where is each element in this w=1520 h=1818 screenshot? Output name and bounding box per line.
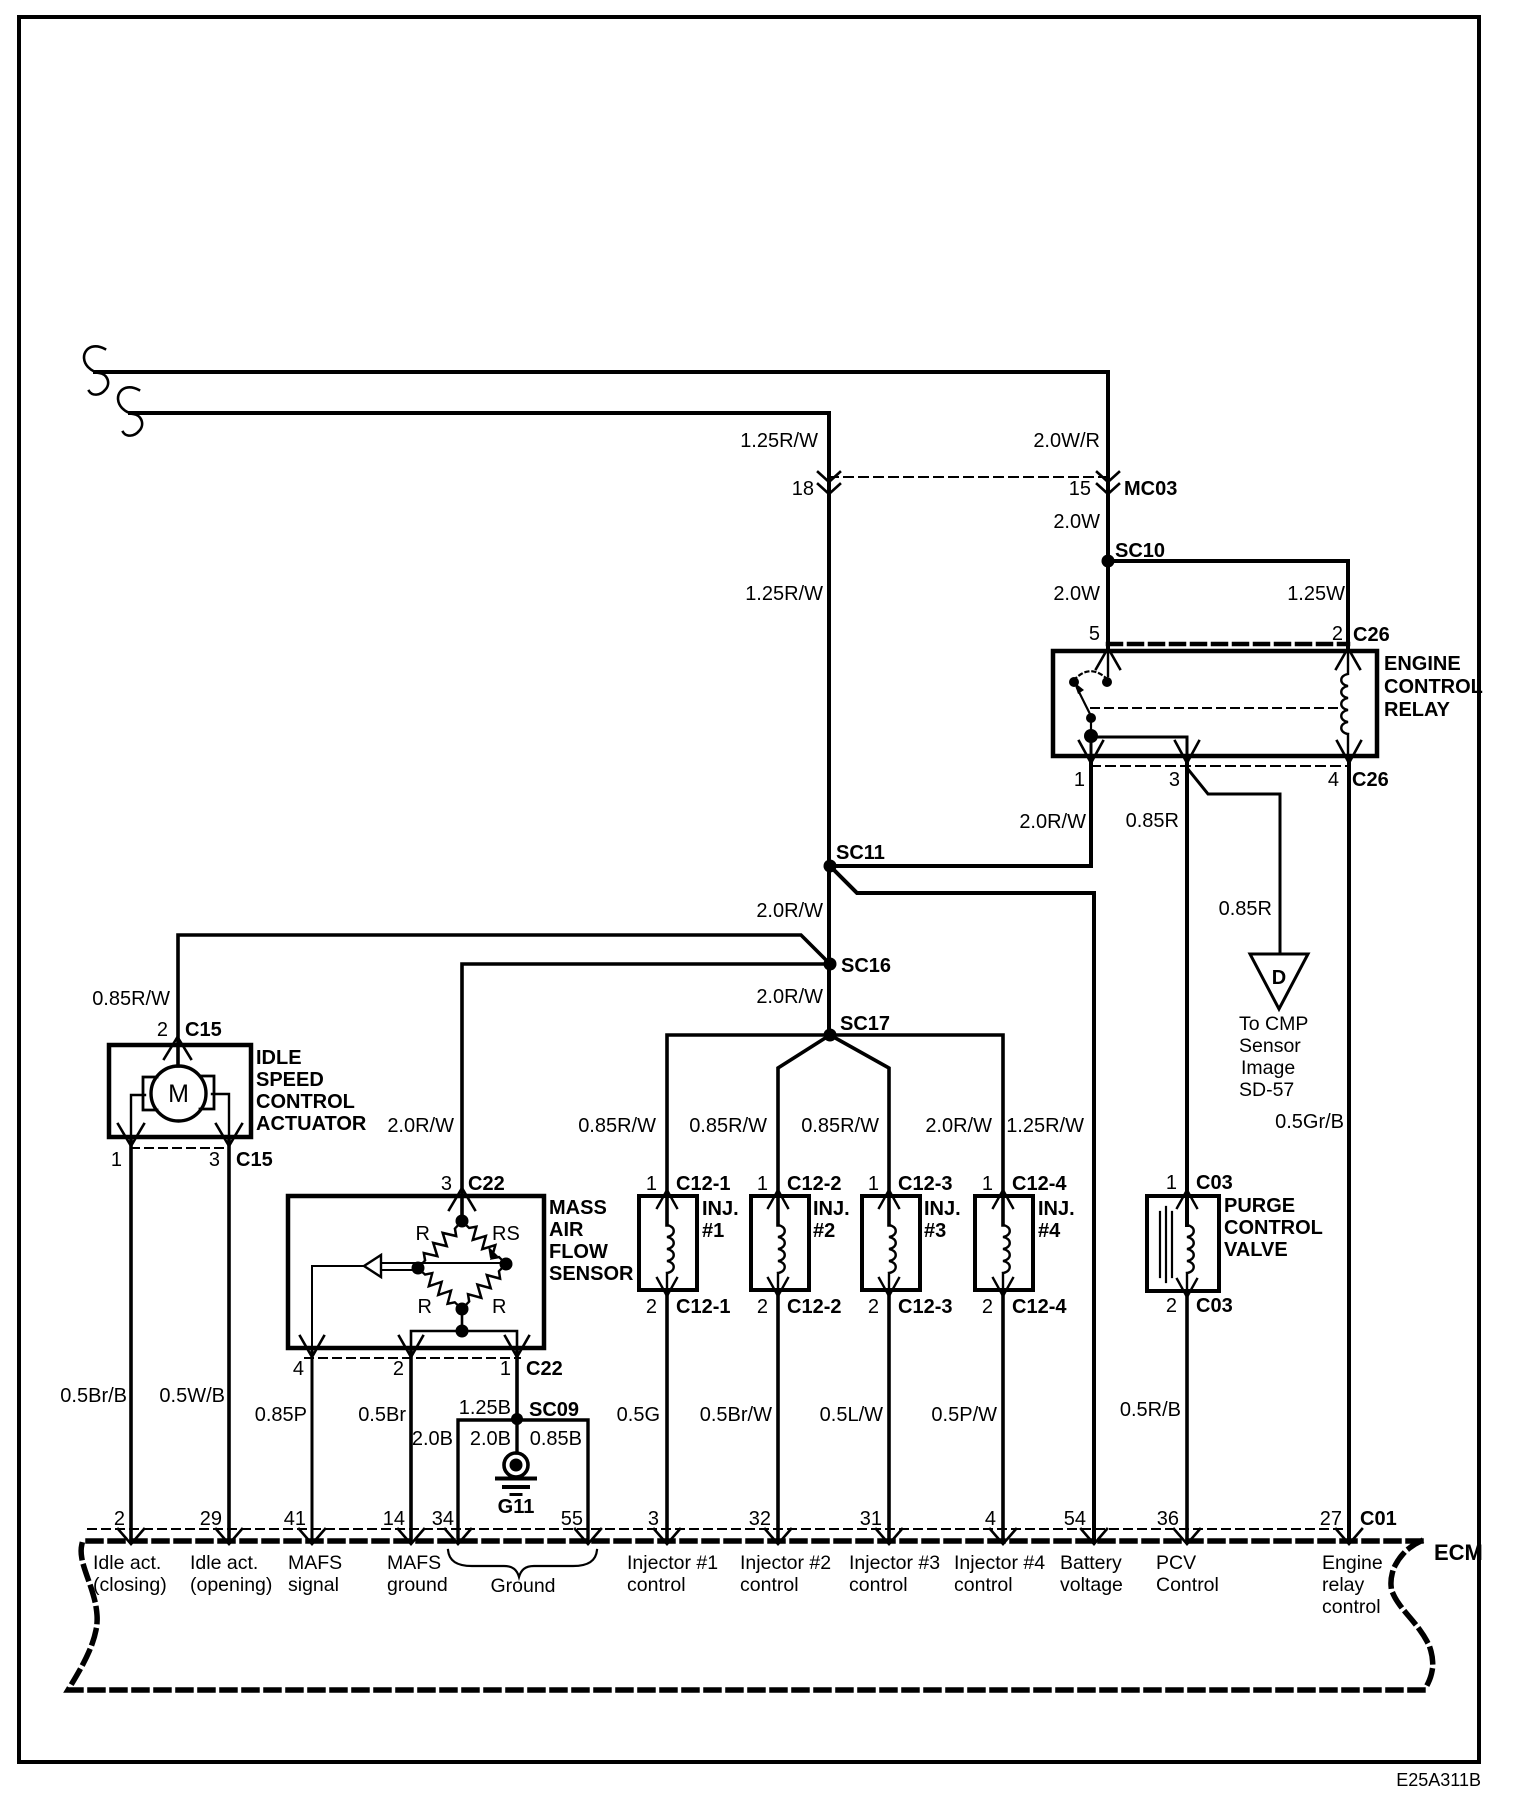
wire ISCA pin3 to ECM pin 29 <box>227 1137 231 1541</box>
svg-text:2: 2 <box>114 1508 125 1530</box>
svg-text:D: D <box>1272 967 1286 989</box>
svg-text:CONTROL: CONTROL <box>1224 1217 1323 1239</box>
svg-text:32: 32 <box>749 1508 771 1530</box>
bridge resistor R top-left <box>414 1217 467 1272</box>
relay switch dot C <box>1086 713 1096 723</box>
svg-text:54: 54 <box>1064 1508 1086 1530</box>
wire SC17 to injector 1 <box>667 1035 830 1225</box>
wires injectors to ECM <box>665 1290 669 1541</box>
svg-text:INJ.: INJ. <box>702 1198 739 1220</box>
relay box <box>1053 651 1377 756</box>
injector 1 box <box>639 1196 697 1290</box>
svg-text:INJ.: INJ. <box>813 1198 850 1220</box>
bridge output lines to arrow <box>381 1263 506 1270</box>
connector C15 dashed line <box>131 1147 229 1149</box>
svg-text:C26: C26 <box>1352 769 1389 791</box>
connector MC03 dashed line <box>829 476 1108 478</box>
injector 3 pin chevrons <box>879 1190 899 1296</box>
svg-text:0.85R/W: 0.85R/W <box>801 1115 879 1137</box>
svg-text:To CMP: To CMP <box>1239 1013 1308 1035</box>
svg-text:signal: signal <box>288 1574 339 1596</box>
bridge node bottom <box>456 1303 469 1316</box>
svg-text:1.25R/W: 1.25R/W <box>1006 1115 1084 1137</box>
svg-text:C22: C22 <box>468 1173 505 1195</box>
relay pin 3 chevron <box>1175 741 1199 763</box>
svg-text:3: 3 <box>648 1508 659 1530</box>
svg-text:CONTROL: CONTROL <box>1384 676 1483 698</box>
svg-text:3: 3 <box>209 1149 220 1171</box>
wire PCV relay pin3 to purge valve <box>1185 756 1189 1225</box>
svg-text:15: 15 <box>1069 478 1091 500</box>
wire engine relay control relay pin4 to ECM pin 27 <box>1347 756 1351 1541</box>
svg-text:31: 31 <box>860 1508 882 1530</box>
svg-text:ECM: ECM <box>1434 1540 1483 1565</box>
svg-text:C01: C01 <box>1360 1508 1397 1530</box>
svg-text:0.5Gr/B: 0.5Gr/B <box>1275 1111 1344 1133</box>
wire SC16 to MAFS pin 3 <box>462 964 830 1214</box>
bridge output arrow <box>364 1255 381 1277</box>
svg-text:C12-3: C12-3 <box>898 1296 952 1318</box>
ISCA pin 1 chevron <box>118 1124 144 1146</box>
relay wire dot D to pins 1 and 3 <box>1091 736 1187 756</box>
wire battery voltage SC11 to ECM pin 54 <box>830 866 1094 1541</box>
svg-text:C03: C03 <box>1196 1295 1233 1317</box>
injector 4 box <box>975 1196 1033 1290</box>
svg-text:0.5W/B: 0.5W/B <box>159 1385 225 1407</box>
svg-text:PCV: PCV <box>1156 1552 1196 1574</box>
svg-text:3: 3 <box>1169 769 1180 791</box>
triangle D to CMP sensor <box>1250 954 1308 1009</box>
svg-text:control: control <box>954 1574 1013 1596</box>
wire SC17 to injector 3 <box>830 1035 889 1225</box>
svg-text:control: control <box>849 1574 908 1596</box>
relay pin 1 chevron <box>1079 741 1103 763</box>
svg-text:SC16: SC16 <box>841 955 891 977</box>
svg-text:0.5P/W: 0.5P/W <box>931 1404 997 1426</box>
ECM light dashed line <box>88 1528 1349 1530</box>
svg-text:1: 1 <box>111 1149 122 1171</box>
injector 4 pin chevrons <box>993 1190 1013 1296</box>
svg-text:1: 1 <box>1166 1172 1177 1194</box>
svg-text:MAFS: MAFS <box>387 1552 441 1574</box>
svg-text:Injector #1: Injector #1 <box>627 1552 718 1574</box>
relay actuation dashed line <box>1091 707 1338 709</box>
ECM bold dashed outline <box>68 1541 1433 1690</box>
MAFS pin 4 chevron <box>300 1336 324 1357</box>
relay switch dot B <box>1102 677 1112 687</box>
svg-text:41: 41 <box>284 1508 306 1530</box>
svg-text:SC09: SC09 <box>529 1399 579 1421</box>
ground G11 symbol <box>504 1453 528 1477</box>
svg-text:1: 1 <box>982 1173 993 1195</box>
svg-text:0.5G: 0.5G <box>617 1404 660 1426</box>
relay switch dot A <box>1069 677 1079 687</box>
wire break curl top-left 1 <box>84 346 108 394</box>
svg-text:2.0R/W: 2.0R/W <box>756 900 823 922</box>
MAFS pin 3 chevron <box>449 1188 475 1210</box>
svg-text:FLOW: FLOW <box>549 1241 608 1263</box>
svg-text:2: 2 <box>646 1296 657 1318</box>
injector 1 pin chevrons <box>657 1190 677 1296</box>
wire motor right to pin 3 <box>212 1094 229 1137</box>
svg-text:SD-57: SD-57 <box>1239 1079 1294 1101</box>
svg-text:2: 2 <box>1332 623 1343 645</box>
svg-text:0.5Br/W: 0.5Br/W <box>700 1404 772 1426</box>
svg-text:2.0R/W: 2.0R/W <box>756 986 823 1008</box>
wire motor left to pin 1 <box>131 1095 145 1137</box>
svg-text:34: 34 <box>432 1508 454 1530</box>
svg-text:control: control <box>1322 1596 1381 1618</box>
svg-text:29: 29 <box>200 1508 222 1530</box>
svg-text:CONTROL: CONTROL <box>256 1091 355 1113</box>
svg-text:1.25B: 1.25B <box>459 1397 511 1419</box>
svg-text:2.0W/R: 2.0W/R <box>1033 430 1100 452</box>
svg-text:Idle act.: Idle act. <box>190 1552 258 1574</box>
RS arrowhead <box>488 1246 498 1258</box>
relay link vertical <box>1090 718 1092 732</box>
svg-text:0.85R/W: 0.85R/W <box>689 1115 767 1137</box>
splice SC10 dot <box>1102 555 1115 568</box>
motor M circle <box>151 1066 206 1121</box>
bridge resistor R bottom-left <box>414 1264 466 1314</box>
svg-text:2: 2 <box>868 1296 879 1318</box>
svg-text:#2: #2 <box>813 1220 835 1242</box>
svg-text:2: 2 <box>757 1296 768 1318</box>
injector 3 coil <box>889 1196 896 1290</box>
idle speed control actuator box <box>109 1045 251 1137</box>
svg-text:PURGE: PURGE <box>1224 1195 1295 1217</box>
relay pin 5 chevron <box>1096 648 1120 669</box>
svg-text:5: 5 <box>1089 623 1100 645</box>
purge control valve box <box>1147 1196 1219 1291</box>
purge valve hatch lines <box>1160 1207 1172 1282</box>
svg-text:1: 1 <box>757 1173 768 1195</box>
svg-text:SC11: SC11 <box>836 842 885 864</box>
svg-text:Injector #4: Injector #4 <box>954 1552 1045 1574</box>
purge valve coil <box>1187 1196 1194 1291</box>
svg-text:Image: Image <box>1241 1057 1295 1079</box>
svg-text:MC03: MC03 <box>1124 478 1177 500</box>
wire ISCA pin1 to ECM pin 2 <box>129 1137 133 1541</box>
ground brace <box>448 1550 597 1577</box>
svg-text:Ground: Ground <box>490 1575 555 1597</box>
svg-text:4: 4 <box>985 1508 996 1530</box>
svg-text:MAFS: MAFS <box>288 1552 342 1574</box>
ISCA pin 2 chevron <box>164 1037 191 1059</box>
svg-text:36: 36 <box>1157 1508 1179 1530</box>
svg-text:C26: C26 <box>1353 624 1390 646</box>
relay switch arm with arrowhead <box>1077 688 1091 716</box>
svg-text:C12-1: C12-1 <box>676 1173 730 1195</box>
svg-text:ACTUATOR: ACTUATOR <box>256 1113 367 1135</box>
svg-text:control: control <box>740 1574 799 1596</box>
svg-text:2.0B: 2.0B <box>412 1428 453 1450</box>
svg-text:1: 1 <box>500 1358 511 1380</box>
svg-text:IDLE: IDLE <box>256 1047 302 1069</box>
wire bridge bottom to pins 2 and 1 <box>411 1309 517 1348</box>
relay switch arm arrowhead <box>1074 682 1084 694</box>
bridge output junction dot <box>456 1325 469 1338</box>
svg-text:M: M <box>168 1080 189 1108</box>
relay pin 2 chevron <box>1336 648 1360 669</box>
MAFS pin 1 chevron <box>505 1336 529 1357</box>
svg-text:C12-2: C12-2 <box>787 1296 841 1318</box>
svg-text:0.5L/W: 0.5L/W <box>820 1404 883 1426</box>
svg-text:#1: #1 <box>702 1220 724 1242</box>
svg-text:C12-2: C12-2 <box>787 1173 841 1195</box>
svg-text:Sensor: Sensor <box>1239 1035 1301 1057</box>
injector 3 box <box>862 1196 920 1290</box>
bridge resistor R bottom-right <box>458 1260 510 1313</box>
connector C26 bottom dashed line <box>1091 765 1349 767</box>
svg-text:2: 2 <box>1166 1295 1177 1317</box>
svg-text:2.0R/W: 2.0R/W <box>925 1115 992 1137</box>
svg-text:AIR: AIR <box>549 1219 584 1241</box>
motor brush tabs <box>143 1076 214 1110</box>
svg-text:2: 2 <box>157 1019 168 1041</box>
wire MAFS pin4 to ECM pin 41 <box>311 1348 314 1541</box>
svg-text:2.0B: 2.0B <box>470 1428 511 1450</box>
svg-text:ENGINE: ENGINE <box>1384 653 1461 675</box>
svg-text:4: 4 <box>1328 769 1339 791</box>
svg-text:SC17: SC17 <box>840 1013 890 1035</box>
svg-text:Battery: Battery <box>1060 1552 1122 1574</box>
injector 2 coil <box>778 1196 785 1290</box>
svg-text:14: 14 <box>383 1508 405 1530</box>
svg-text:1: 1 <box>646 1173 657 1195</box>
svg-text:2.0R/W: 2.0R/W <box>1019 811 1086 833</box>
svg-text:R: R <box>492 1296 506 1318</box>
relay pin 5 stub <box>1107 651 1109 676</box>
svg-text:(opening): (opening) <box>190 1574 272 1596</box>
wire 1.25R/W top horizontal to SC17 <box>130 413 829 1035</box>
svg-text:0.5R/B: 0.5R/B <box>1120 1399 1181 1421</box>
svg-text:2: 2 <box>393 1358 404 1380</box>
mass air flow sensor box <box>288 1196 544 1348</box>
svg-text:C03: C03 <box>1196 1172 1233 1194</box>
purge valve pin chevrons <box>1177 1190 1197 1297</box>
bridge node left <box>412 1262 425 1275</box>
svg-text:55: 55 <box>561 1508 583 1530</box>
connector MC03 pin 18 chevrons <box>818 472 840 494</box>
svg-text:C15: C15 <box>236 1149 273 1171</box>
svg-text:C12-1: C12-1 <box>676 1296 730 1318</box>
ISCA pin 3 chevron <box>216 1124 242 1146</box>
svg-text:INJ.: INJ. <box>924 1198 961 1220</box>
svg-text:Idle act.: Idle act. <box>93 1552 161 1574</box>
svg-text:C12-4: C12-4 <box>1012 1173 1067 1195</box>
svg-text:control: control <box>627 1574 686 1596</box>
svg-text:1: 1 <box>868 1173 879 1195</box>
splice SC16 dot <box>824 958 837 971</box>
svg-text:1.25W: 1.25W <box>1287 583 1345 605</box>
svg-text:0.85R/W: 0.85R/W <box>578 1115 656 1137</box>
wire SC17 to injector 4 <box>830 1035 1003 1225</box>
relay coil <box>1341 651 1348 756</box>
svg-text:E25A311B: E25A311B <box>1396 1770 1481 1790</box>
svg-text:27: 27 <box>1320 1508 1342 1530</box>
svg-text:1.25R/W: 1.25R/W <box>740 430 818 452</box>
relay pin 4 chevron <box>1337 741 1361 763</box>
svg-text:2: 2 <box>982 1296 993 1318</box>
svg-text:0.85R: 0.85R <box>1219 898 1272 920</box>
svg-text:0.85R: 0.85R <box>1126 810 1179 832</box>
wire SC17 to injector 2 <box>778 1035 830 1225</box>
svg-text:#4: #4 <box>1038 1220 1061 1242</box>
svg-text:RS: RS <box>492 1223 520 1245</box>
svg-text:RELAY: RELAY <box>1384 699 1451 721</box>
connector MC03 pin 15 chevrons <box>1097 472 1119 494</box>
wire SC10 branch to relay pin 2 <box>1108 561 1348 651</box>
wire 2.0W/R top horizontal to relay pin 5 <box>95 372 1108 651</box>
svg-text:C15: C15 <box>185 1019 222 1041</box>
svg-text:C12-4: C12-4 <box>1012 1296 1067 1318</box>
svg-text:0.5Br: 0.5Br <box>358 1404 406 1426</box>
connector C22 dashed line <box>305 1357 520 1359</box>
svg-text:4: 4 <box>293 1358 304 1380</box>
splice SC09 dot <box>511 1413 523 1425</box>
wire MAFS pin2 to ECM pin 14 <box>409 1348 413 1541</box>
splice SC11 dot <box>824 860 837 873</box>
svg-text:Engine: Engine <box>1322 1552 1383 1574</box>
svg-text:relay: relay <box>1322 1574 1365 1596</box>
svg-text:18: 18 <box>792 478 814 500</box>
wire SC16 to idle speed control actuator <box>178 935 830 1066</box>
bridge node right <box>500 1258 513 1271</box>
svg-text:SENSOR: SENSOR <box>549 1263 634 1285</box>
injector 2 pin chevrons <box>768 1190 788 1296</box>
svg-text:0.85B: 0.85B <box>530 1428 582 1450</box>
wire pin3 branch to D triangle <box>1187 768 1280 954</box>
MAFS pin 2 chevron <box>399 1336 423 1357</box>
svg-text:2.0W: 2.0W <box>1053 583 1100 605</box>
svg-text:0.85P: 0.85P <box>255 1404 307 1426</box>
svg-text:MASS: MASS <box>549 1197 607 1219</box>
wire purge valve to ECM pin 36 <box>1185 1291 1189 1541</box>
relay common dot D <box>1084 729 1098 743</box>
svg-text:ground: ground <box>387 1574 448 1596</box>
wire SC09 branches to ECM 34 and 55 <box>458 1420 588 1541</box>
svg-text:2.0W: 2.0W <box>1053 511 1100 533</box>
svg-text:0.5Br/B: 0.5Br/B <box>60 1385 127 1407</box>
svg-text:0.85R/W: 0.85R/W <box>92 988 170 1010</box>
svg-text:(closing): (closing) <box>93 1574 167 1596</box>
svg-text:C12-3: C12-3 <box>898 1173 952 1195</box>
ground G11 center dot <box>510 1459 523 1472</box>
svg-text:INJ.: INJ. <box>1038 1198 1075 1220</box>
svg-text:1: 1 <box>1074 769 1085 791</box>
ground G11 bars <box>497 1477 535 1481</box>
svg-text:2.0R/W: 2.0R/W <box>387 1115 454 1137</box>
ECM pin chevrons <box>118 1529 144 1544</box>
svg-text:3: 3 <box>441 1173 452 1195</box>
wire feedback to MAFS pin 4 <box>312 1266 364 1348</box>
splice SC17 dot <box>824 1029 837 1042</box>
svg-text:Control: Control <box>1156 1574 1219 1596</box>
svg-text:Injector #3: Injector #3 <box>849 1552 940 1574</box>
svg-text:R: R <box>416 1223 430 1245</box>
wire break curl top-left 2 <box>118 387 142 435</box>
svg-text:G11: G11 <box>498 1496 535 1518</box>
connector C26 top bold dashed line <box>1108 642 1348 647</box>
svg-text:VALVE: VALVE <box>1224 1239 1288 1261</box>
svg-text:Injector #2: Injector #2 <box>740 1552 831 1574</box>
bridge node top <box>456 1215 469 1228</box>
wire 2.0R/W relay pin1 to SC11 <box>830 756 1091 866</box>
svg-text:voltage: voltage <box>1060 1574 1123 1596</box>
wire SC09 to ground G11 <box>515 1420 518 1453</box>
bridge resistor RS top-right <box>458 1217 510 1269</box>
svg-text:SC10: SC10 <box>1115 540 1165 562</box>
svg-text:SPEED: SPEED <box>256 1069 324 1091</box>
injector 1 coil <box>667 1196 674 1290</box>
svg-text:R: R <box>418 1296 432 1318</box>
svg-text:#3: #3 <box>924 1220 946 1242</box>
injector 4 coil <box>1003 1196 1010 1290</box>
wire MAFS pin1 to SC09 <box>515 1348 519 1420</box>
relay switch dashed arc <box>1074 671 1107 680</box>
svg-text:1.25R/W: 1.25R/W <box>745 583 823 605</box>
injector 2 box <box>751 1196 809 1290</box>
svg-text:C22: C22 <box>526 1358 563 1380</box>
